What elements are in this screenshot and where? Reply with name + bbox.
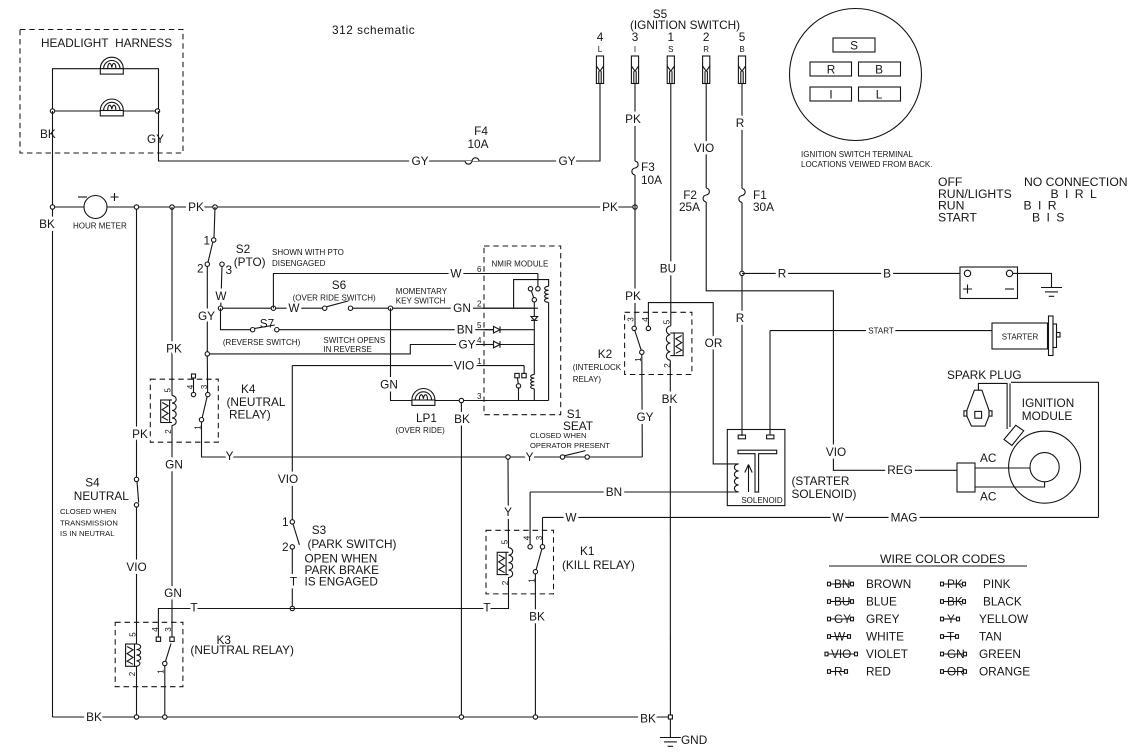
wire T line xyxy=(158,577,508,637)
svg-text:5: 5 xyxy=(129,632,138,637)
relay K4 neutral relay box xyxy=(150,379,218,442)
wire harness top loop xyxy=(53,69,159,111)
svg-text:10A: 10A xyxy=(468,137,489,151)
svg-text:2: 2 xyxy=(703,30,710,44)
svg-text:S6: S6 xyxy=(332,278,347,292)
svg-text:F3: F3 xyxy=(641,160,655,174)
svg-text:SOLENOID): SOLENOID) xyxy=(792,487,857,501)
svg-text:(STARTER: (STARTER xyxy=(792,474,850,488)
svg-text:B: B xyxy=(875,63,883,77)
svg-text:RED: RED xyxy=(866,665,891,679)
svg-text:START: START xyxy=(868,327,894,336)
solenoid arrow xyxy=(745,465,752,493)
svg-text:(PTO): (PTO) xyxy=(234,255,266,269)
node bus K1 BK xyxy=(533,715,537,719)
svg-text:GY: GY xyxy=(147,132,164,146)
svg-text:5: 5 xyxy=(163,388,172,393)
svg-text:L: L xyxy=(598,45,603,54)
ignition module outline xyxy=(1011,382,1099,517)
wire GY to NMIR pin4 xyxy=(210,345,494,354)
wire START line xyxy=(770,330,992,332)
svg-text:T: T xyxy=(290,575,297,589)
svg-text:RELAY): RELAY) xyxy=(573,375,602,384)
svg-text:PK: PK xyxy=(602,200,618,214)
wire PK hour meter line xyxy=(53,206,636,208)
K3 switch arm xyxy=(166,644,172,662)
K4 switch arm xyxy=(202,397,207,418)
battery BT1 xyxy=(960,267,1018,299)
wire harness bottom xyxy=(53,110,159,112)
wire R terminal VIO xyxy=(705,84,707,189)
K3 switch pin4 xyxy=(156,637,160,641)
wire GN drop to LP1 line xyxy=(391,308,413,400)
svg-text:GREY: GREY xyxy=(866,612,900,626)
wire K1 pin1 BK to bus xyxy=(534,574,536,717)
node junction R battery xyxy=(740,271,744,275)
legend W WHITE xyxy=(828,630,905,644)
svg-text:3: 3 xyxy=(164,627,173,632)
svg-text:W: W xyxy=(288,301,300,315)
wire AC bottom xyxy=(975,482,1045,487)
svg-text:BU: BU xyxy=(660,262,676,276)
svg-text:R: R xyxy=(827,63,836,77)
svg-text:PK: PK xyxy=(166,342,182,356)
legend OR ORANGE xyxy=(941,665,1031,679)
svg-text:PINK: PINK xyxy=(983,577,1011,591)
svg-text:4: 4 xyxy=(641,317,650,322)
svg-text:2: 2 xyxy=(282,540,289,554)
legend VIO VIOLET xyxy=(825,647,908,661)
switch S3 park switch xyxy=(290,520,294,524)
svg-text:R: R xyxy=(703,45,709,54)
svg-text:GY: GY xyxy=(558,154,575,168)
svg-text:3: 3 xyxy=(632,30,639,44)
svg-text:BK: BK xyxy=(39,217,55,231)
svg-text:R: R xyxy=(834,665,843,679)
wire GND stub xyxy=(669,719,671,738)
svg-text:L: L xyxy=(876,88,883,102)
svg-text:HEADLIGHT HARNESS: HEADLIGHT HARNESS xyxy=(41,36,172,50)
svg-text:4: 4 xyxy=(186,384,195,389)
svg-text:BK: BK xyxy=(947,595,963,609)
K3 switch pin3 xyxy=(170,637,174,641)
svg-text:HOUR METER: HOUR METER xyxy=(73,222,127,231)
legend BN BROWN xyxy=(828,577,912,591)
NMIR pin1 drop to contact xyxy=(523,366,525,374)
svg-text:SWITCH OPENS: SWITCH OPENS xyxy=(323,336,385,345)
wire bottom BK bus xyxy=(53,716,671,718)
node bus K3 coil xyxy=(134,715,138,719)
svg-text:5: 5 xyxy=(663,319,672,324)
relay K1 kill relay box xyxy=(486,530,554,594)
node bus K2 BK / GND xyxy=(668,715,672,719)
svg-text:BK: BK xyxy=(454,412,470,426)
svg-text:GN: GN xyxy=(947,647,965,661)
K4 coil xyxy=(171,207,173,396)
K1 coil xyxy=(507,459,510,548)
NMIR relay contact left xyxy=(528,287,532,291)
svg-text:GY: GY xyxy=(411,154,428,168)
NMIR lower contact left xyxy=(515,373,519,377)
svg-text:Y: Y xyxy=(226,449,234,463)
svg-text:5: 5 xyxy=(500,539,509,544)
svg-text:REG: REG xyxy=(887,463,913,477)
svg-text:3: 3 xyxy=(226,263,233,277)
svg-text:1: 1 xyxy=(668,30,675,44)
svg-text:IGNITION SWITCH TERMINAL: IGNITION SWITCH TERMINAL xyxy=(801,150,913,159)
wire S4 to K3 coil VIO xyxy=(136,507,138,644)
svg-text:CLOSED WHEN: CLOSED WHEN xyxy=(60,507,117,516)
svg-text:LOCATIONS VEIWED FROM BACK.: LOCATIONS VEIWED FROM BACK. xyxy=(801,160,932,169)
node junction K4 coil drop xyxy=(170,205,174,209)
svg-text:(REVERSE SWITCH): (REVERSE SWITCH) xyxy=(223,338,301,347)
svg-text:T: T xyxy=(947,630,954,644)
svg-text:PK: PK xyxy=(132,427,148,441)
svg-text:BN: BN xyxy=(457,323,473,337)
K4 switch pin3 xyxy=(206,356,208,392)
svg-text:BROWN: BROWN xyxy=(866,577,911,591)
NMIR module box xyxy=(484,246,561,415)
svg-text:TAN: TAN xyxy=(979,630,1002,644)
svg-text:BN: BN xyxy=(606,485,622,499)
K3 coil xyxy=(137,644,141,666)
svg-text:2: 2 xyxy=(477,300,482,309)
ignition switch terminal view circle xyxy=(790,9,922,141)
ignition module flywheel circles xyxy=(1009,431,1081,503)
svg-text:W: W xyxy=(450,267,462,281)
wire BN to NMIR pin5 xyxy=(279,329,494,331)
svg-text:VIO: VIO xyxy=(278,472,298,486)
svg-text:(INTERLOCK: (INTERLOCK xyxy=(573,363,622,372)
svg-text:GY: GY xyxy=(834,612,851,626)
starter motor xyxy=(992,323,1048,349)
wire W K1 pin3 to MAG xyxy=(543,516,1099,518)
svg-text:R: R xyxy=(778,266,787,280)
wire VIO to NMIR pin1 xyxy=(292,365,524,367)
fuse F2 25A xyxy=(703,188,709,202)
svg-text:25A: 25A xyxy=(679,200,700,214)
svg-text:VIO: VIO xyxy=(826,445,846,459)
ignition module boot xyxy=(1004,425,1024,445)
wire battery to ground xyxy=(1013,273,1052,287)
wire S terminal BU xyxy=(670,84,672,326)
fuse F3 10A xyxy=(632,161,638,175)
svg-text:S2: S2 xyxy=(236,242,250,256)
svg-text:PK: PK xyxy=(947,577,963,591)
NMIR coil loop top xyxy=(514,280,549,309)
K4 switch pin4 stub xyxy=(192,374,196,378)
K2 switch pin3 xyxy=(633,326,636,328)
svg-text:B I S: B I S xyxy=(1032,211,1066,225)
ground battery xyxy=(1041,288,1062,297)
svg-text:PK: PK xyxy=(625,289,641,303)
svg-text:GY: GY xyxy=(458,338,475,352)
svg-text:MODULE: MODULE xyxy=(1022,409,1073,423)
wire W/GN line xyxy=(223,307,325,309)
NMIR center vertical with diode xyxy=(533,302,535,317)
svg-text:TRANSMISSION: TRANSMISSION xyxy=(60,519,118,528)
solenoid terminal left xyxy=(738,435,745,439)
svg-text:(KILL RELAY): (KILL RELAY) xyxy=(562,558,635,572)
svg-text:GN: GN xyxy=(453,301,471,315)
svg-text:B: B xyxy=(739,45,744,54)
svg-text:IS IN NEUTRAL: IS IN NEUTRAL xyxy=(60,529,114,538)
svg-text:(PARK SWITCH): (PARK SWITCH) xyxy=(308,537,397,551)
wire S3 pin2 T down xyxy=(291,549,293,606)
svg-text:3: 3 xyxy=(477,392,482,401)
node harness left xyxy=(50,109,54,113)
node junction W pin6 riser xyxy=(271,306,275,310)
svg-text:K1: K1 xyxy=(580,544,594,558)
NMIR top coil xyxy=(544,286,548,302)
starter solenoid box xyxy=(727,430,785,506)
svg-text:R: R xyxy=(736,116,745,130)
svg-text:1: 1 xyxy=(282,515,289,529)
fuse F4 10A xyxy=(465,158,479,164)
svg-text:4: 4 xyxy=(477,336,482,345)
wire VIO vertical to S3 xyxy=(291,366,293,520)
wire BK left vertical xyxy=(52,111,54,717)
wire AC top xyxy=(975,467,1030,469)
svg-text:OPERATOR PRESENT: OPERATOR PRESENT xyxy=(530,441,610,450)
svg-text:IS ENGAGED: IS ENGAGED xyxy=(305,575,378,589)
svg-text:30A: 30A xyxy=(753,200,774,214)
svg-text:SOLENOID: SOLENOID xyxy=(741,496,783,505)
svg-text:CLOSED WHEN: CLOSED WHEN xyxy=(530,431,587,440)
svg-text:SPARK PLUG: SPARK PLUG xyxy=(947,368,1022,382)
svg-text:STARTER: STARTER xyxy=(1002,333,1039,342)
svg-text:LP1: LP1 xyxy=(416,411,437,425)
node junction T line xyxy=(290,606,294,610)
svg-text:BK: BK xyxy=(529,610,545,624)
legend T TAN xyxy=(941,630,1002,644)
svg-text:BN: BN xyxy=(834,577,850,591)
svg-text:IN REVERSE: IN REVERSE xyxy=(323,345,371,354)
svg-text:PK: PK xyxy=(625,112,641,126)
svg-text:T: T xyxy=(483,601,490,615)
NMIR pin6 drop to contact xyxy=(537,274,539,287)
switch S4 neutral xyxy=(136,209,138,477)
svg-text:RELAY): RELAY) xyxy=(229,408,271,422)
wire solenoid right terminal riser xyxy=(769,331,771,435)
svg-text:START: START xyxy=(938,211,977,225)
svg-text:S7: S7 xyxy=(260,317,274,331)
switch S2 PTO xyxy=(214,207,215,238)
svg-text:(NEUTRAL RELAY): (NEUTRAL RELAY) xyxy=(190,643,294,657)
fuse F1 30A xyxy=(739,189,745,203)
svg-text:W: W xyxy=(832,510,844,524)
wire BK vertical to bus xyxy=(460,403,462,717)
wire R to battery xyxy=(742,272,960,274)
svg-text:OR: OR xyxy=(705,336,723,350)
svg-text:S: S xyxy=(850,39,858,53)
svg-text:ORANGE: ORANGE xyxy=(979,665,1030,679)
lamp headlight 1 xyxy=(100,57,123,74)
svg-text:VIO: VIO xyxy=(126,560,146,574)
svg-text:4: 4 xyxy=(523,535,532,540)
svg-text:1: 1 xyxy=(203,234,210,248)
svg-text:K2: K2 xyxy=(598,347,612,361)
wire I terminal PK xyxy=(634,84,636,162)
svg-text:OR: OR xyxy=(947,665,965,679)
wire S7 BN line xyxy=(221,308,251,330)
svg-text:GND: GND xyxy=(681,733,707,747)
svg-text:MOMENTARY: MOMENTARY xyxy=(396,287,448,296)
legend PK PINK xyxy=(941,577,1011,591)
node junction GY branch xyxy=(205,352,209,356)
svg-text:AC: AC xyxy=(980,451,997,465)
svg-text:VIO: VIO xyxy=(831,647,851,661)
switch S6 over ride xyxy=(323,306,327,310)
node PK left end xyxy=(50,205,54,209)
legend Y YELLOW xyxy=(941,612,1030,626)
svg-text:VIO: VIO xyxy=(454,359,474,373)
wire GY from harness xyxy=(159,84,601,162)
svg-text:VIOLET: VIOLET xyxy=(866,647,908,661)
NMIR pin4 line diode xyxy=(484,344,494,346)
wire S2 pin2 GY down xyxy=(206,266,208,351)
svg-text:VIO: VIO xyxy=(694,141,714,155)
svg-text:MAG: MAG xyxy=(891,510,918,524)
legend BU BLUE xyxy=(828,595,897,609)
svg-text:GY: GY xyxy=(636,410,653,424)
node junction GN drop xyxy=(388,306,392,310)
node junction PK/F3 xyxy=(633,205,637,209)
solenoid terminal right xyxy=(767,435,774,439)
svg-text:YELLOW: YELLOW xyxy=(979,612,1029,626)
svg-text:4: 4 xyxy=(151,627,160,632)
svg-text:B: B xyxy=(883,266,891,280)
svg-text:2: 2 xyxy=(128,671,137,676)
svg-text:3: 3 xyxy=(200,384,209,389)
svg-text:Y: Y xyxy=(526,450,534,464)
svg-text:KEY SWITCH: KEY SWITCH xyxy=(396,297,446,306)
svg-text:BK: BK xyxy=(40,127,56,141)
K2 switch arm xyxy=(635,331,641,351)
node W line left xyxy=(218,306,222,310)
svg-text:(IGNITION SWITCH): (IGNITION SWITCH) xyxy=(630,18,740,32)
headlight harness box xyxy=(20,30,183,154)
svg-text:BLACK: BLACK xyxy=(983,595,1022,609)
svg-text:I: I xyxy=(634,45,636,54)
svg-text:WHITE: WHITE xyxy=(866,630,904,644)
solenoid coil xyxy=(734,464,738,492)
svg-text:4: 4 xyxy=(597,30,604,44)
svg-text:NEUTRAL: NEUTRAL xyxy=(74,489,130,503)
legend GY GREY xyxy=(828,612,900,626)
K1 switch pin4 xyxy=(529,492,531,545)
svg-text:GREEN: GREEN xyxy=(979,647,1021,661)
node junction Y / K1 coil xyxy=(506,455,510,459)
svg-text:2: 2 xyxy=(501,580,510,585)
svg-text:3: 3 xyxy=(535,535,544,540)
wire B terminal R xyxy=(741,84,743,189)
NMIR bottom coil xyxy=(531,375,535,389)
svg-text:AC: AC xyxy=(980,490,997,504)
svg-text:F4: F4 xyxy=(474,124,488,138)
wire K2 pin1 GY to seat xyxy=(641,355,644,458)
NMIR pin3 line xyxy=(484,400,549,402)
K1 switch arm xyxy=(536,549,542,570)
svg-text:Y: Y xyxy=(504,505,512,519)
lamp LP1 over ride xyxy=(412,389,435,406)
svg-text:(OVER RIDE): (OVER RIDE) xyxy=(396,426,446,435)
node bus NMIR BK xyxy=(459,715,463,719)
svg-text:(OVER RIDE SWITCH): (OVER RIDE SWITCH) xyxy=(293,294,376,303)
svg-text:W: W xyxy=(565,510,577,524)
legend GN GREEN xyxy=(941,647,1021,661)
lamp headlight 2 xyxy=(100,99,123,116)
svg-text:GN: GN xyxy=(164,586,182,600)
svg-text:6: 6 xyxy=(477,265,482,274)
wire S2 pin3 W down xyxy=(221,266,222,306)
svg-text:W: W xyxy=(834,630,846,644)
svg-text:GY: GY xyxy=(198,309,215,323)
solenoid T plunger xyxy=(738,450,777,492)
relay K3 neutral relay box xyxy=(115,622,183,686)
svg-text:R: R xyxy=(736,311,745,325)
svg-text:5: 5 xyxy=(739,30,746,44)
svg-text:3: 3 xyxy=(627,317,636,322)
svg-text:S: S xyxy=(668,45,673,54)
AC connector xyxy=(957,463,975,492)
svg-text:WIRE COLOR CODES: WIRE COLOR CODES xyxy=(880,552,1005,566)
wire K4 pin1 to Y line xyxy=(202,422,643,457)
K2 switch pin4 xyxy=(648,303,738,464)
hour meter M1 xyxy=(84,196,107,219)
node junction BK drop xyxy=(459,398,463,402)
node junction S2 drop xyxy=(213,205,217,209)
svg-text:BU: BU xyxy=(834,595,850,609)
svg-text:2: 2 xyxy=(197,262,204,276)
wire BN K1 pin4 to solenoid xyxy=(530,491,739,493)
svg-text:W: W xyxy=(215,289,227,303)
svg-text:GN: GN xyxy=(380,378,398,392)
switch S7 reverse xyxy=(250,328,254,332)
svg-text:GN: GN xyxy=(165,458,183,472)
node bus K3 pin1 xyxy=(163,715,167,719)
svg-text:PK: PK xyxy=(188,200,204,214)
svg-text:312 schematic: 312 schematic xyxy=(332,23,415,37)
svg-text:BK: BK xyxy=(640,712,656,726)
K1 switch pin3 xyxy=(542,517,544,544)
svg-text:NMIR MODULE: NMIR MODULE xyxy=(492,260,549,269)
wire K2 coil BK to bus xyxy=(669,360,671,715)
relay K2 interlock relay box xyxy=(625,312,692,374)
ground main GND xyxy=(660,738,681,747)
svg-text:BLUE: BLUE xyxy=(866,595,897,609)
svg-text:Y: Y xyxy=(947,612,955,626)
K2 coil xyxy=(669,325,672,327)
NMIR pin2 line xyxy=(484,307,534,309)
svg-text:IGNITION: IGNITION xyxy=(1022,396,1074,410)
svg-text:BK: BK xyxy=(662,392,678,406)
legend BK BLACK xyxy=(941,595,1022,609)
svg-text:1: 1 xyxy=(477,357,482,366)
wire spark plug lead xyxy=(978,383,1007,429)
spark plug P1 xyxy=(967,390,989,426)
wire W to NMIR pin6 xyxy=(273,274,538,309)
NMIR pin5 line diode xyxy=(484,329,494,331)
node harness right xyxy=(155,109,159,113)
svg-text:T: T xyxy=(190,601,197,615)
svg-text:DISENGAGED: DISENGAGED xyxy=(272,259,326,268)
svg-text:10A: 10A xyxy=(641,173,662,187)
svg-text:5: 5 xyxy=(477,321,482,330)
legend R RED xyxy=(828,665,891,679)
switch S1 seat xyxy=(560,455,564,459)
svg-text:BK: BK xyxy=(86,710,102,724)
